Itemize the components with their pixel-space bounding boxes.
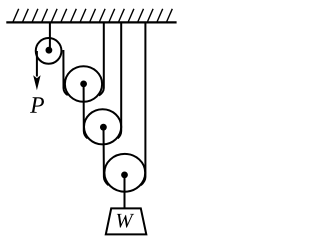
wire: rope pulley 2 right side up to ceiling, tail at bottom: [99, 22, 104, 95]
ceiling hatching: [13, 9, 172, 22]
wire: rope from pulley 2 axle down along pulley 3 left side: [84, 84, 88, 138]
weight block (trapezoid): [106, 208, 147, 234]
pulley 1 axle dot: [46, 47, 53, 54]
arrow for force P: [33, 75, 40, 90]
wire: rope pulley 4 right side up to ceiling, tail at bottom: [141, 22, 146, 185]
pulley 3 (movable): [84, 109, 121, 144]
pulley 1 (small fixed pulley): [36, 38, 62, 64]
pulley 2 (movable): [65, 66, 102, 102]
pulley 3 axle dot: [100, 124, 107, 131]
label P: [30, 97, 44, 112]
wire: rope pulley 1 right side down to pulley 2, tail hugging pulley: [63, 50, 67, 95]
label W: [117, 214, 134, 228]
pulley 2 axle dot: [80, 81, 87, 88]
wire: rope from pulley 3 axle down along pulley 4 left side: [104, 127, 109, 185]
pulley 4 axle dot: [121, 172, 128, 179]
wire: rope pulley 3 right side up to ceiling, tail at bottom: [118, 22, 122, 138]
ceiling line: [6, 21, 176, 23]
wire: rope left of pulley 1 down to arrow: [36, 51, 38, 77]
wire: rope pulley 4 axle down to weight: [124, 175, 126, 208]
pulley 4 (movable, lowest): [104, 154, 145, 192]
wire: ceiling to pulley 1 axle: [49, 22, 51, 50]
